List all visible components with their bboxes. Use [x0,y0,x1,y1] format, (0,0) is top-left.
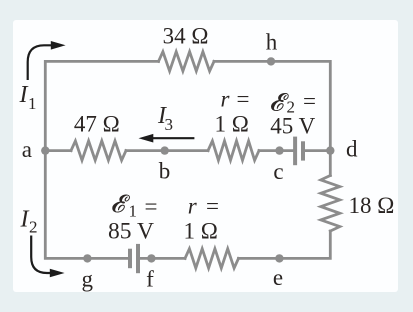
svg-text:f: f [146,267,154,292]
resistor r 1ohm (of battery E1) [185,249,239,268]
battery E2 short plate [301,141,305,160]
svg-text:I: I [19,82,29,108]
wire top-right segment to corner and down right side [214,61,330,175]
current arrow I1 [28,45,52,80]
wire from battery E2 short plate to node d [305,149,330,152]
wire from r to battery E1 long plate [140,257,185,260]
svg-text:2: 2 [29,218,38,237]
svg-text:1 Ω: 1 Ω [184,219,218,244]
svg-text:3: 3 [165,115,174,134]
wire right side below 18ohm to bottom-right corner [239,231,331,258]
resistor R 47ohm [71,141,126,160]
svg-text:85 V: 85 V [108,219,154,245]
battery E1 short plate [128,249,132,269]
svg-text:34 Ω: 34 Ω [163,24,209,49]
wire top-left horizontal segment [45,61,158,150]
svg-text:c: c [273,159,283,184]
svg-text:=: = [303,88,316,113]
svg-text:=: = [145,194,158,219]
svg-text:=: = [237,86,250,111]
battery E2 long plate [293,137,297,166]
label E1 script symbol [113,195,130,212]
resistor R 18ohm [321,176,340,232]
current arrow I3 [152,137,194,139]
svg-text:b: b [159,159,171,184]
svg-text:g: g [82,267,94,292]
svg-text:e: e [273,265,283,290]
svg-text:1 Ω: 1 Ω [215,112,249,137]
wire between 47ohm and r of E2 [126,149,208,152]
svg-text:r: r [188,194,198,219]
svg-text:45 V: 45 V [270,114,315,139]
wire from r to battery E2 long plate [259,149,293,152]
svg-text:a: a [22,137,32,162]
current arrow I2 [31,236,50,274]
wire from battery E1 short plate to bottom-left corner [45,151,128,259]
resistor r 1ohm (of battery E2) [208,141,259,160]
svg-text:1: 1 [28,94,37,113]
svg-text:h: h [266,30,278,55]
node b junction dot [161,146,169,154]
svg-text:=: = [206,194,219,219]
wire middle: node a to 47ohm [45,149,71,152]
node h junction dot [267,57,275,65]
svg-text:r: r [221,86,231,111]
svg-text:18 Ω: 18 Ω [349,193,395,218]
resistor R 34ohm [159,52,215,71]
node f junction dot [147,254,155,262]
svg-text:d: d [346,137,358,162]
node a junction dot [41,146,49,154]
node c junction dot [275,146,283,154]
svg-text:I: I [20,207,30,233]
node d junction dot [326,146,334,154]
svg-text:47 Ω: 47 Ω [74,112,120,137]
node e junction dot [275,254,283,262]
label E2 script symbol [271,93,288,110]
battery E1 long plate [136,244,140,273]
node g junction dot [83,254,91,262]
